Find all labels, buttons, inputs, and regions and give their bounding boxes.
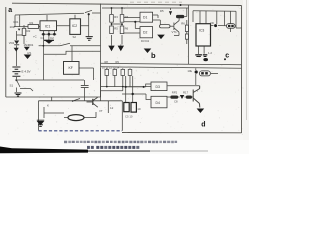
svg-text:D4: D4 [156,101,160,105]
svg-text:IC2: IC2 [72,24,77,28]
svg-text:R17: R17 [183,90,189,94]
svg-text:S2: S2 [73,35,77,39]
svg-text:C8: C8 [174,99,178,103]
svg-text:d: d [201,122,205,129]
svg-text:R1: R1 [30,21,34,25]
svg-text:10k: 10k [187,69,192,73]
svg-text:RP2: RP2 [172,90,178,94]
svg-text:b: b [151,51,156,60]
svg-text:R4: R4 [125,15,129,19]
svg-text:C2: C2 [50,36,54,40]
svg-text:VT: VT [99,109,103,113]
svg-text:VT1: VT1 [172,30,178,34]
svg-text:12: 12 [110,106,114,110]
svg-text:10: 10 [137,107,141,111]
svg-text:R8: R8 [105,60,109,64]
svg-text:c: c [225,53,229,60]
svg-text:R2: R2 [27,29,31,33]
svg-text:R9: R9 [116,60,120,64]
svg-text:+C: +C [33,35,37,39]
svg-text:E 4.5V: E 4.5V [22,70,31,74]
svg-text:D2: D2 [143,31,147,35]
svg-text:IC1: IC1 [45,24,51,28]
svg-text:100: 100 [10,25,15,29]
svg-text:R3: R3 [114,15,118,19]
svg-text:R5: R5 [114,27,118,31]
svg-text:S1: S1 [10,84,14,88]
svg-text:IC3: IC3 [199,29,204,33]
svg-text:C1: C1 [41,36,45,40]
svg-text:D5: D5 [160,9,164,13]
svg-text:VD2: VD2 [9,41,15,45]
svg-text:4.5: 4.5 [27,51,31,55]
svg-text:T: T [197,89,199,93]
svg-text:KF: KF [69,66,73,70]
svg-text:1.2: 1.2 [208,51,212,55]
svg-text:a: a [8,7,12,14]
svg-text:K: K [47,104,49,108]
svg-text:VD: VD [210,21,214,25]
svg-text:D1: D1 [143,16,147,20]
svg-text:10 11 12 13 14: 10 11 12 13 14 [102,66,120,70]
svg-text:D3: D3 [156,85,160,89]
svg-text:VD1: VD1 [13,20,19,24]
svg-text:R6: R6 [125,27,129,31]
svg-text:R6: R6 [181,22,185,26]
svg-text:C5 10: C5 10 [125,115,133,119]
